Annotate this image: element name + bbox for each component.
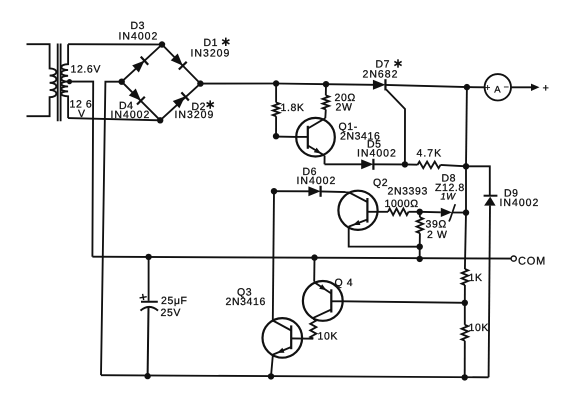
- transistor Q3 base bar: [290, 325, 292, 349]
- transistor Q3 base lead: [291, 337, 313, 339]
- wire Q3 emitter down: [271, 355, 273, 377]
- resistor 10K between Q4 and Q3: [310, 319, 316, 339]
- wire 39ohm bottom lead: [419, 233, 421, 247]
- wire 1K to divider node: [464, 285, 466, 303]
- ammeter M1 circle: [485, 74, 511, 100]
- transistor Q1 emitter: [308, 146, 325, 156]
- bridge edge top-right wire: [162, 45, 200, 84]
- diode D9 triangle: [484, 197, 496, 206]
- svg-text:IN3209: IN3209: [191, 48, 231, 60]
- wire 1.8K bottom to node: [275, 116, 277, 136]
- wire COM rail: [92, 257, 511, 259]
- node Q4 emitter top: [311, 254, 317, 260]
- SCR D7 gate wire: [386, 90, 405, 165]
- resistor 1000 ohm: [388, 209, 409, 216]
- diode D1: [170, 53, 186, 69]
- capacitor C1 plus mark: [139, 293, 147, 300]
- transistor Q3 circle: [263, 318, 303, 358]
- svg-text:IN4002: IN4002: [357, 148, 397, 160]
- transistor Q2 collector: [367, 211, 377, 213]
- zener D8 triangle: [441, 208, 452, 217]
- wire Q4 base to divider: [343, 301, 465, 303]
- svg-text:+: +: [543, 83, 549, 95]
- svg-text:1.8K: 1.8K: [281, 102, 305, 114]
- svg-text:25μF: 25μF: [161, 295, 188, 307]
- wire 20ohm bottom to Q1 collector: [324, 109, 327, 118]
- transistor Q4 base bar: [330, 289, 332, 312]
- node Q2 emitter on COM: [417, 256, 423, 262]
- wire 39ohm top lead: [419, 212, 421, 218]
- wire top rail D7 to meter: [386, 85, 485, 87]
- node bridge right vertex: [197, 80, 203, 86]
- bridge edge left-bottom wire: [122, 82, 161, 121]
- resistor 10K right: [462, 325, 468, 341]
- svg-text:2N3393: 2N3393: [388, 186, 428, 198]
- resistor 39 ohm 2W: [417, 217, 423, 233]
- node zener anode junction: [417, 209, 423, 215]
- wire Q3 collector line: [273, 191, 274, 320]
- wire center tap to COM rail: [68, 82, 93, 257]
- node bridge left vertex: [119, 79, 125, 85]
- wire meter to output arrow: [511, 86, 532, 88]
- svg-text:IN3209: IN3209: [175, 109, 215, 121]
- node zener cathode junction: [463, 209, 469, 215]
- svg-text:4.7K: 4.7K: [417, 148, 443, 160]
- transistor Q3 emitter: [273, 347, 291, 355]
- node SCR gate junction: [402, 161, 408, 167]
- wire D5 to gate node: [373, 163, 405, 165]
- svg-text:Q2: Q2: [373, 177, 388, 189]
- wire 1000ohm to node: [409, 211, 420, 213]
- diode D5: [361, 159, 373, 170]
- wire capacitor top lead: [148, 257, 150, 301]
- node capacitor bottom: [144, 373, 150, 379]
- transistor Q2 base lead inside: [348, 192, 367, 202]
- wire capacitor bottom lead: [147, 307, 150, 376]
- svg-text:10K: 10K: [318, 331, 338, 343]
- wire bottom rail: [101, 375, 489, 377]
- capacitor C1 top plate: [141, 301, 158, 303]
- transistor Q4 circle: [303, 281, 343, 321]
- wire secondary bottom to bridge bottom vertex: [68, 118, 160, 120]
- diode D6: [308, 186, 320, 197]
- transformer T1 secondary winding: [61, 44, 68, 118]
- transformer T1 primary winding: [27, 44, 57, 116]
- wire bridge left vertex down to bottom rail: [101, 82, 122, 376]
- svg-text:1W: 1W: [441, 192, 457, 203]
- node divider junction: [462, 300, 468, 306]
- transformer T1 core: [57, 44, 59, 122]
- transistor Q4 base lead: [331, 300, 342, 302]
- transistor Q4 emitter inside: [314, 282, 331, 293]
- wire zener cathode lead: [453, 212, 467, 214]
- resistor 1.8K: [273, 103, 279, 117]
- wire 39ohm junction to COM: [419, 247, 421, 259]
- svg-text:COM: COM: [518, 256, 546, 268]
- transistor Q2 base bar: [366, 198, 368, 223]
- wire D9 anode down: [489, 206, 490, 378]
- wire right column to 1K: [465, 213, 466, 269]
- svg-text:A: A: [494, 84, 501, 95]
- svg-text:IN4002: IN4002: [119, 31, 159, 43]
- diode D4: [128, 88, 144, 104]
- transistor Q2 circle: [338, 191, 377, 230]
- wire D9 top lead: [466, 166, 490, 195]
- wire secondary top to bridge top vertex: [68, 43, 162, 45]
- wire Q1 emitter to D5: [325, 163, 362, 165]
- transistor Q3 collector inside: [273, 321, 291, 331]
- node 4.7K right junction: [463, 163, 469, 169]
- wire Q1 base: [276, 136, 297, 138]
- node Q1 base junction: [273, 133, 279, 139]
- resistor 1000 ohm leads: [378, 211, 388, 213]
- wire 1.8K top lead: [275, 84, 277, 103]
- node 10K bottom: [462, 374, 468, 380]
- zener D8 bar: [449, 204, 455, 221]
- svg-text:Q 4: Q 4: [335, 277, 354, 289]
- transistor Q2 emitter: [349, 220, 368, 227]
- transistor Q1 base bar: [307, 126, 309, 149]
- bridge edge left-top wire: [122, 45, 162, 82]
- svg-text:12.6V: 12.6V: [71, 63, 101, 75]
- wire 10K to bottom rail: [464, 341, 466, 378]
- wire D6 to Q2 base: [320, 190, 348, 193]
- wire 4.7K to right column: [441, 165, 467, 166]
- svg-text:1K: 1K: [469, 272, 483, 284]
- terminal COM circle: [511, 256, 516, 261]
- transistor Q1 base lead inside: [297, 136, 308, 138]
- diode D9 bar: [484, 195, 498, 197]
- resistor 4.7K: [418, 162, 441, 169]
- svg-text:2W: 2W: [336, 102, 353, 114]
- node Q3 emitter bottom: [268, 373, 274, 379]
- wire zener anode lead: [420, 211, 441, 214]
- resistor 20 ohm 2W: [323, 95, 329, 109]
- node bridge bottom vertex: [157, 117, 163, 123]
- center tap node: [67, 79, 72, 84]
- diode D2: [172, 92, 188, 108]
- svg-text:10K: 10K: [469, 322, 489, 334]
- output arrowhead: [531, 84, 540, 91]
- svg-text:−: −: [504, 82, 509, 92]
- svg-text:2N682: 2N682: [363, 68, 399, 80]
- wire Q2 emitter down: [349, 227, 420, 247]
- node 1.8K top: [273, 80, 279, 86]
- transistor Q1 collector: [308, 118, 326, 128]
- wire right column top: [465, 87, 468, 166]
- node top rail right junction: [464, 84, 470, 90]
- node 20ohm top: [323, 81, 329, 87]
- wire 20ohm top lead: [325, 84, 327, 95]
- wire D6 anode lead: [274, 190, 309, 192]
- SCR D7 2N682: [373, 79, 386, 90]
- bridge edge bottom-right wire: [160, 84, 200, 121]
- diode D3: [132, 57, 148, 73]
- svg-text:IN4002: IN4002: [297, 175, 337, 187]
- svg-text:IN4002: IN4002: [500, 197, 540, 209]
- wire top rail bridge to D7: [200, 84, 373, 85]
- transistor Q1 circle: [296, 118, 335, 157]
- transistor Q4 collector: [313, 310, 331, 318]
- node 39ohm bottom junction: [417, 244, 423, 250]
- wire divider node to 10K: [464, 303, 466, 325]
- svg-text:25V: 25V: [161, 307, 181, 319]
- node D6 junction: [271, 188, 277, 194]
- svg-text:2N3416: 2N3416: [226, 296, 266, 308]
- resistor 1K: [462, 269, 468, 285]
- wire Q1 emitter down: [324, 156, 326, 165]
- svg-text:2 W: 2 W: [427, 229, 447, 241]
- node bridge top vertex: [159, 41, 165, 47]
- wire Q4 emitter top lead: [313, 258, 315, 282]
- wire right column mid: [465, 166, 467, 212]
- capacitor C1 bottom plate: [141, 307, 159, 311]
- svg-text:1000Ω: 1000Ω: [385, 198, 419, 210]
- svg-text:IN4002: IN4002: [111, 109, 151, 121]
- wire gate node to 4.7K: [405, 163, 418, 165]
- svg-text:+: +: [485, 83, 490, 93]
- node capacitor top: [145, 254, 151, 260]
